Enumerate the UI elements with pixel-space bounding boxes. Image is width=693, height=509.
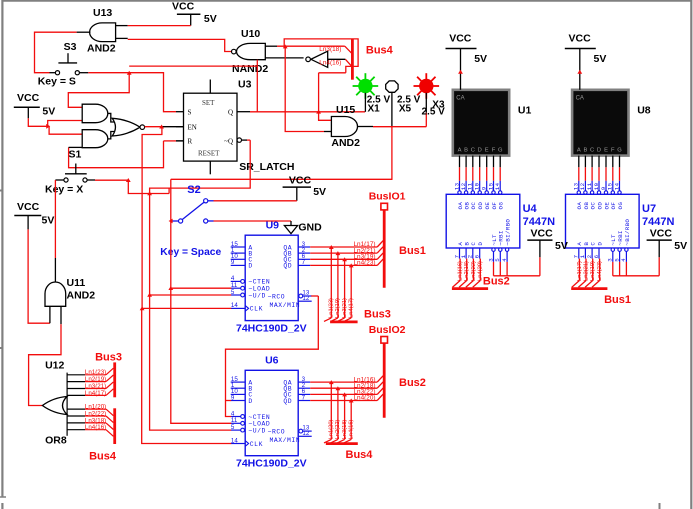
svg-text:BusIO2: BusIO2: [369, 324, 406, 336]
bus Bus4 (horizontal segment near U6): [326, 444, 373, 462]
svg-text:7: 7: [302, 394, 306, 401]
svg-text:QD: QD: [283, 398, 292, 405]
counter U9 74HC190D_2V: [231, 219, 312, 334]
svg-text:GND: GND: [298, 222, 322, 234]
nand-gate U10 NAND2: [232, 28, 304, 75]
svg-text:Bus4: Bus4: [89, 450, 117, 462]
7seg display U1: [446, 33, 532, 168]
svg-text:F: F: [611, 147, 615, 153]
svg-text:U1: U1: [518, 105, 532, 117]
LED X3 (red): [414, 73, 446, 117]
wire to U9 ~LOAD: [171, 287, 231, 289]
svg-text:Ln2(21): Ln2(21): [583, 261, 589, 281]
wire CLK net down to U6 CLK: [142, 308, 232, 443]
svg-text:Ln1(23): Ln1(23): [329, 298, 335, 318]
and-gate U15 AND2: [331, 104, 373, 149]
wire S1 right to ~U/D net: [95, 178, 169, 195]
svg-text:U10: U10: [241, 28, 260, 40]
svg-text:Ln4(16): Ln4(16): [348, 419, 354, 439]
svg-text:Ln4(23): Ln4(23): [354, 260, 376, 267]
svg-text:U6: U6: [265, 354, 279, 366]
svg-text:~RCO: ~RCO: [268, 293, 286, 300]
svg-text:A: A: [458, 147, 462, 153]
svg-text:Ln4(17): Ln4(17): [85, 390, 106, 397]
svg-text:~RCO: ~RCO: [268, 428, 286, 435]
svg-text:Key = X: Key = X: [45, 184, 83, 196]
counter U6 74HC190D_2V: [231, 354, 312, 469]
or-gate U12 OR8: [42, 360, 85, 447]
wire U13 output to switch S3: [35, 32, 77, 72]
svg-text:CA: CA: [576, 96, 584, 102]
wire VCC down to U11 input: [28, 229, 50, 323]
bus connector BusIO2: [369, 324, 406, 343]
wire VCC to U13 input: [128, 25, 191, 27]
svg-text:12: 12: [302, 295, 309, 302]
svg-text:G: G: [617, 147, 622, 153]
bus Bus2 (segment under U4): [452, 276, 510, 289]
svg-text:5: 5: [231, 289, 235, 296]
wire U8 pins to U7: [579, 167, 620, 191]
wire OR8 output up to U11 input: [29, 324, 61, 405]
svg-text:~U/D: ~U/D: [248, 292, 266, 299]
svg-text:Ln3(19): Ln3(19): [590, 261, 596, 281]
wire U4 LT/RBI/BI pins to VCC: [494, 257, 540, 276]
svg-text:RESET: RESET: [198, 150, 220, 158]
svg-text:VCC: VCC: [172, 0, 195, 12]
wire Q to U15 input and X1: [319, 73, 346, 121]
bus Bus4 (top, near U10): [352, 39, 393, 80]
wire U7 A-D inputs from Bus1: [572, 259, 603, 288]
switch S2 Key=Space: [160, 184, 221, 258]
wire ~Q down and left: [150, 140, 251, 295]
wire U6 QA-QD to Bus2 entries: [310, 376, 383, 402]
svg-text:Bus1: Bus1: [604, 294, 631, 306]
svg-text:Bus1: Bus1: [399, 245, 426, 257]
svg-text:5V: 5V: [555, 240, 568, 252]
svg-text:Ln3(18): Ln3(18): [319, 46, 341, 53]
svg-text:R: R: [188, 138, 193, 146]
bus Bus1 (segment under U7): [571, 289, 631, 306]
svg-text:5: 5: [231, 424, 235, 431]
svg-text:U9: U9: [266, 219, 280, 231]
svg-text:Bus4: Bus4: [346, 449, 374, 461]
svg-text:~Q: ~Q: [224, 138, 233, 146]
svg-text:A: A: [577, 147, 581, 153]
wire U7 LT/RBI/BI pins to VCC: [613, 257, 659, 276]
svg-text:BusIO1: BusIO1: [369, 191, 406, 203]
svg-text:X1: X1: [368, 104, 381, 115]
wire U10 output to U13 input: [128, 39, 232, 51]
wire S2 throw to GND: [214, 220, 292, 222]
svg-text:C: C: [590, 147, 594, 153]
and-gate U11 AND2 (pointing up): [45, 277, 95, 324]
svg-text:5V: 5V: [42, 105, 55, 117]
wire R pin to lower AND input: [69, 141, 184, 168]
svg-text:4: 4: [620, 258, 627, 262]
wire long horizontal (to lamp X5): [171, 178, 393, 180]
svg-text:10: 10: [593, 182, 600, 190]
svg-text:14: 14: [494, 182, 501, 190]
wire VCC to AND gate inputs: [28, 118, 82, 134]
svg-text:9: 9: [231, 259, 235, 266]
power VCC 5V (U4): [527, 227, 568, 257]
wire loop above Bus4: [283, 39, 358, 73]
svg-text:2.5 V: 2.5 V: [422, 107, 446, 118]
svg-text:MAX/MIN: MAX/MIN: [269, 302, 300, 309]
bus Bus2 (vertical bar): [384, 343, 426, 418]
svg-text:Ln4(17): Ln4(17): [348, 298, 354, 318]
svg-text:Ln1(16): Ln1(16): [458, 261, 464, 281]
svg-text:Ln3(21): Ln3(21): [342, 298, 348, 318]
svg-text:Ln3(18): Ln3(18): [342, 419, 348, 439]
svg-text:SET: SET: [202, 99, 215, 107]
svg-text:MAX/MIN: MAX/MIN: [269, 437, 300, 444]
svg-text:Ln4(16): Ln4(16): [319, 59, 341, 66]
svg-text:Ln1(17): Ln1(17): [577, 261, 583, 281]
svg-text:4: 4: [501, 258, 508, 262]
svg-text:U4: U4: [523, 203, 538, 215]
wire S3 right to S input of U3: [88, 71, 176, 112]
svg-text:OG: OG: [617, 202, 624, 210]
bus Bus1 (vertical bar): [384, 210, 426, 288]
wire S1 left to U11 output: [54, 180, 56, 282]
svg-text:OG: OG: [498, 202, 505, 210]
svg-text:9: 9: [231, 394, 235, 401]
wire Q output net: [250, 60, 365, 114]
nor-gate (latch core): [108, 113, 145, 138]
svg-text:5V: 5V: [313, 186, 326, 198]
svg-text:U8: U8: [637, 105, 651, 117]
svg-text:B: B: [583, 147, 587, 153]
svg-text:VCC: VCC: [650, 227, 673, 239]
and-gate (upper of latch pair): [82, 104, 108, 123]
svg-text:VCC: VCC: [449, 33, 472, 45]
svg-text:CLK: CLK: [250, 441, 263, 448]
wire feedback to upper AND input: [68, 66, 257, 107]
power VCC 5V (left, feeds U11): [14, 201, 54, 229]
bus Bus3 (bar near OR8): [95, 352, 122, 398]
svg-text:Bus2: Bus2: [483, 276, 510, 288]
svg-text:Ln2(18): Ln2(18): [464, 261, 470, 281]
svg-text:U3: U3: [238, 78, 252, 90]
svg-text:Bus4: Bus4: [366, 45, 394, 57]
wire to U9 ~U/D: [147, 293, 231, 297]
bus Bus3 (horizontal segment near U9): [330, 309, 391, 322]
svg-text:B: B: [464, 147, 468, 153]
not-gate (inverter, mirrored): [306, 51, 346, 67]
svg-text:Bus2: Bus2: [399, 377, 426, 389]
svg-text:SR_LATCH: SR_LATCH: [239, 161, 294, 173]
wire S2 left throw down (~LOAD net): [168, 179, 173, 290]
power VCC 5V (U7): [647, 227, 688, 257]
svg-text:CLK: CLK: [250, 306, 263, 313]
svg-text:12: 12: [302, 430, 309, 437]
svg-text:U12: U12: [45, 360, 64, 372]
svg-text:Bus3: Bus3: [95, 352, 122, 364]
svg-text:E: E: [485, 147, 489, 153]
svg-text:S2: S2: [187, 184, 200, 196]
svg-text:5V: 5V: [594, 53, 607, 65]
and-gate (lower of latch pair): [82, 130, 108, 148]
svg-text:Ln4(20): Ln4(20): [354, 395, 376, 402]
svg-text:C: C: [471, 147, 475, 153]
svg-text:QD: QD: [283, 263, 292, 270]
svg-text:~U/D: ~U/D: [248, 427, 266, 434]
svg-text:D: D: [248, 263, 252, 270]
svg-text:6: 6: [593, 254, 600, 258]
svg-text:5V: 5V: [674, 240, 687, 252]
svg-text:CA: CA: [456, 96, 464, 102]
svg-text:AND2: AND2: [331, 137, 360, 149]
svg-text:OD: OD: [596, 202, 603, 210]
wire taps U6 QA-QD down to Bus4: [324, 380, 354, 443]
svg-text:Bus3: Bus3: [364, 309, 391, 321]
wire U9 QA-QD to Bus1 entries: [310, 241, 383, 267]
svg-text:Ln2(19): Ln2(19): [335, 298, 341, 318]
svg-text:14: 14: [231, 302, 238, 309]
ground GND: [284, 221, 322, 234]
svg-text:F: F: [492, 147, 496, 153]
svg-text:G: G: [498, 147, 503, 153]
svg-text:D: D: [478, 147, 482, 153]
switch S1 Key=X: [45, 148, 95, 195]
svg-text:6: 6: [474, 254, 481, 258]
wire U1 pins to U4: [460, 167, 501, 191]
bus entries OR8 inputs from Bus4: [85, 404, 114, 437]
bus Bus4 (bar near OR8): [89, 408, 117, 462]
svg-text:~BI/RBO: ~BI/RBO: [505, 219, 512, 246]
wire NOR output to EN pin: [145, 125, 184, 129]
svg-text:74HC190D_2V: 74HC190D_2V: [236, 322, 307, 334]
wire EN node to counters clock: [142, 127, 162, 309]
svg-text:10: 10: [474, 182, 481, 190]
svg-text:~BI/RBO: ~BI/RBO: [624, 219, 631, 246]
svg-text:D: D: [596, 242, 603, 246]
wire U15 second input: [285, 46, 331, 131]
and-gate U13 AND2: [77, 7, 128, 54]
bus entry Ln4(16): [319, 59, 351, 66]
svg-text:AND2: AND2: [87, 42, 116, 54]
lamp X5 (white): [386, 81, 421, 126]
svg-text:Ln4(16): Ln4(16): [85, 424, 106, 431]
svg-text:D: D: [597, 147, 601, 153]
svg-text:EN: EN: [188, 124, 197, 132]
wire ~Q net down to U6 ~U/D: [150, 295, 232, 430]
svg-text:Ln2(22): Ln2(22): [335, 419, 341, 439]
svg-text:VCC: VCC: [569, 33, 592, 45]
svg-text:5V: 5V: [474, 53, 487, 65]
svg-text:VCC: VCC: [17, 92, 40, 104]
bus connector BusIO1: [369, 191, 406, 210]
svg-text:OR8: OR8: [45, 434, 67, 446]
svg-text:S: S: [188, 109, 192, 117]
bus entries OR8 inputs from Bus3: [85, 368, 114, 397]
svg-text:14: 14: [231, 437, 238, 444]
svg-text:S1: S1: [69, 148, 82, 160]
svg-text:Ln1(20): Ln1(20): [329, 419, 335, 439]
power VCC 5V (for S2): [283, 174, 326, 201]
svg-text:Key = Space: Key = Space: [160, 247, 221, 258]
svg-text:S3: S3: [64, 41, 77, 53]
svg-text:E: E: [604, 147, 608, 153]
decoder U4 7447N: [446, 182, 555, 261]
svg-text:U13: U13: [93, 7, 112, 19]
svg-text:Ln3(22): Ln3(22): [471, 261, 477, 281]
svg-text:U11: U11: [67, 277, 86, 289]
svg-text:14: 14: [613, 182, 620, 190]
svg-text:D: D: [477, 242, 484, 246]
svg-text:Q: Q: [228, 109, 233, 117]
wire U9 ~RCO to U6 ~CTEN and D: [226, 296, 319, 417]
bus entry Ln3(18): [277, 46, 352, 53]
svg-text:VCC: VCC: [289, 174, 312, 186]
svg-text:X5: X5: [399, 104, 412, 115]
svg-text:74HC190D_2V: 74HC190D_2V: [236, 458, 307, 470]
svg-text:VCC: VCC: [531, 227, 554, 239]
wire S2 common to VCC: [214, 200, 297, 202]
svg-text:Ln4(23): Ln4(23): [597, 261, 603, 281]
wire CLK net to U9 CLK: [140, 306, 232, 310]
svg-text:D: D: [248, 398, 252, 405]
wire S2 net down to U6 ~LOAD: [171, 288, 231, 423]
svg-text:AND2: AND2: [67, 290, 96, 302]
svg-text:5V: 5V: [42, 215, 55, 227]
svg-text:Key = S: Key = S: [38, 75, 76, 87]
svg-text:U15: U15: [336, 104, 355, 116]
svg-text:VCC: VCC: [17, 201, 40, 213]
wire U4 A-D inputs from Bus2: [453, 259, 484, 288]
decoder U7 7447N: [566, 182, 675, 261]
latch U3 SR_LATCH: [176, 78, 294, 174]
wire lamp X5 down: [391, 126, 393, 179]
power VCC 5V (top center): [172, 0, 217, 25]
svg-text:OD: OD: [477, 202, 484, 210]
svg-text:NAND2: NAND2: [232, 63, 268, 75]
LED X1 (green): [353, 73, 391, 115]
switch S3 Key=S: [38, 41, 89, 88]
svg-text:5V: 5V: [204, 13, 217, 25]
7seg display U8: [565, 33, 651, 168]
power VCC 5V (left, feeds AND gates): [14, 92, 55, 118]
wire taps QA-QD down to Bus3: [324, 245, 354, 321]
wire U15 output to X3: [373, 113, 426, 127]
svg-text:U7: U7: [642, 203, 656, 215]
svg-text:7: 7: [302, 259, 306, 266]
